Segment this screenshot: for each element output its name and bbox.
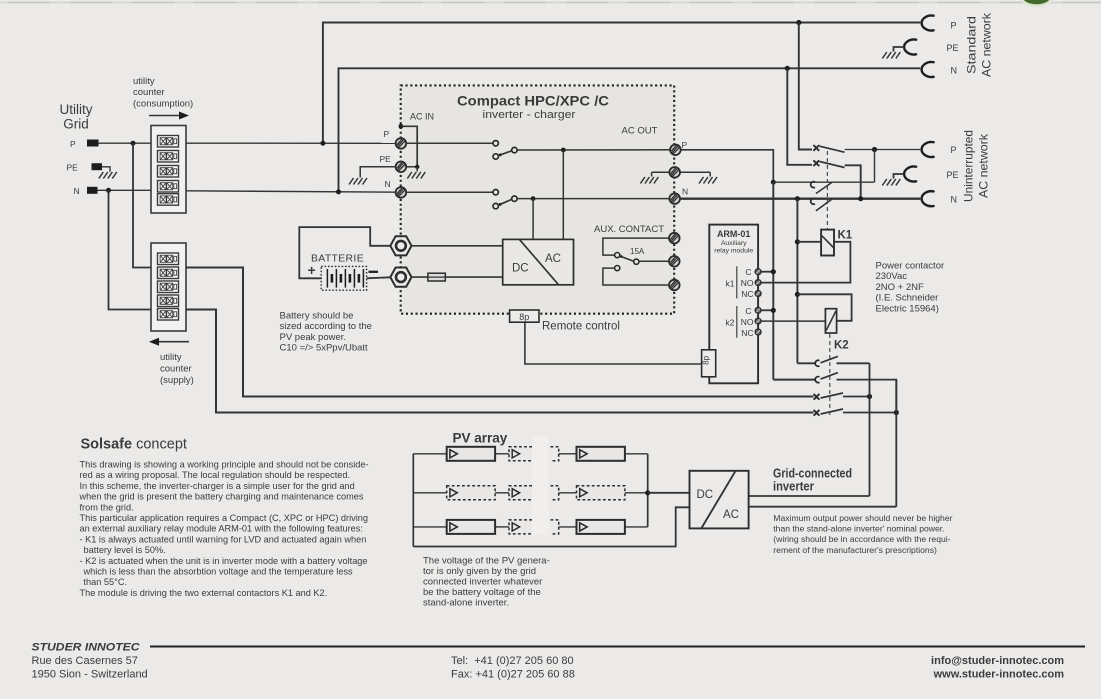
- note Solsafe paragraph: [79, 460, 369, 598]
- label 15A: [630, 247, 645, 256]
- svg-text:Remote control: Remote control: [542, 321, 620, 333]
- PV module PV2a (dashed): [447, 486, 495, 500]
- svg-text:than 55°C.: than 55°C.: [84, 577, 128, 587]
- wire N out line (thick): [680, 198, 920, 200]
- svg-text:C: C: [745, 306, 751, 316]
- wire standard P feed: [323, 23, 920, 144]
- label K1: [838, 230, 853, 242]
- wire k1 C to P bus: [761, 269, 776, 274]
- relay coil K2: [825, 309, 836, 333]
- contactor K2 pole 2 feed: [773, 379, 815, 381]
- PV module PV3c: [577, 520, 625, 534]
- wire K1 coil right pin to ARM NO1: [761, 242, 850, 283]
- node junction x896: [894, 410, 899, 415]
- svg-text:In this scheme, the inverter-c: In this scheme, the inverter-charger is …: [80, 481, 355, 491]
- svg-text:an external auxiliary relay mo: an external auxiliary relay module ARM-0…: [80, 524, 363, 534]
- svg-text:red as a wiring proposal. The: red as a wiring proposal. The local regu…: [80, 470, 351, 480]
- node k2 terminal group labels: [726, 306, 754, 338]
- terminal k2 NO: [755, 318, 761, 324]
- wire K2 pole1 out: [837, 362, 870, 364]
- wire PE to left ground: [360, 167, 395, 178]
- svg-text:STUDER INNOTEC: STUDER INNOTEC: [32, 642, 141, 654]
- svg-text:Rue des Casernes 57: Rue des Casernes 57: [32, 655, 138, 667]
- svg-text:15A: 15A: [630, 247, 645, 256]
- relay contact aux lower pole: [615, 266, 620, 271]
- svg-text:Auxiliary: Auxiliary: [721, 240, 747, 247]
- contactor K2 pole 1 feed: [797, 362, 815, 364]
- svg-text:N: N: [951, 66, 958, 76]
- svg-text:utility: utility: [160, 352, 182, 363]
- svg-text:AC: AC: [545, 253, 561, 265]
- ground (std PE): [882, 52, 900, 59]
- PV module 1b right end dashes: [551, 447, 559, 461]
- PV module 2b right end dashes: [551, 486, 559, 500]
- node junction std N: [785, 66, 790, 71]
- PV module PV3a: [447, 520, 495, 534]
- converter U2 grid-connected inverter: [690, 471, 749, 529]
- svg-text:PE: PE: [67, 163, 79, 173]
- fuse F1: [428, 273, 445, 281]
- terminal k1 NC: [755, 291, 761, 297]
- label N (AC IN): [385, 179, 391, 189]
- svg-text:Fax: +41 (0)27 205 60 88: Fax: +41 (0)27 205 60 88: [451, 669, 575, 681]
- PV module PV1b (dashed, faded): [509, 447, 532, 461]
- svg-text:PE: PE: [947, 170, 959, 180]
- label Power contactor note: [876, 261, 945, 315]
- wire P grid to counter1: [99, 142, 152, 144]
- node junction N line x860: [858, 196, 863, 201]
- label Solsafe concept: [81, 437, 187, 453]
- svg-text:www.studer-innotec.com: www.studer-innotec.com: [933, 669, 1065, 681]
- wire inverter output 1: [749, 495, 870, 497]
- footer company name: [32, 642, 141, 654]
- wire K2 coil left pin from k2 NO: [761, 320, 825, 322]
- svg-text:NC: NC: [741, 289, 753, 299]
- terminal k2 NC: [755, 329, 761, 335]
- svg-text:- K2 is actuated when the unit: - K2 is actuated when the unit is in inv…: [80, 556, 368, 566]
- module Compact HPC/XPC inverter-charger (dashed enclosure): [401, 85, 675, 313]
- connector socket unint P: [922, 142, 934, 157]
- wire std PE stub: [894, 47, 904, 52]
- svg-text:battery level is 50%.: battery level is 50%.: [84, 545, 166, 555]
- terminal P AC OUT: [670, 140, 687, 155]
- node junction PV bus: [645, 490, 650, 495]
- node junction std P: [796, 20, 801, 25]
- utility counter (supply) label: [160, 352, 194, 386]
- label P (AC IN): [384, 129, 390, 139]
- wire N drop to supply counter: [109, 190, 152, 309]
- terminal k2 C: [755, 307, 761, 313]
- svg-text:N: N: [951, 195, 958, 205]
- svg-text:PV array: PV array: [453, 431, 508, 446]
- contactor K1 pole 2 (x terminal + blade): [813, 160, 844, 167]
- svg-text:N: N: [385, 179, 391, 189]
- wire supply counter P side to long bus A: [186, 268, 814, 397]
- svg-text:k1: k1: [726, 279, 735, 289]
- wire AC IN PE bridge: [401, 126, 420, 169]
- terminal N AC IN: [396, 187, 407, 198]
- terminal k1 NO: [755, 280, 761, 286]
- svg-text:sized according to the: sized according to the: [280, 321, 372, 332]
- wire K1 pole1 out to uninterrupted P: [845, 149, 921, 151]
- node junction dot on P wire x322: [320, 141, 325, 146]
- wire S1b to AC OUT N: [517, 198, 669, 200]
- PV module 3b right end dashes: [551, 520, 559, 534]
- svg-text:DC: DC: [697, 489, 714, 501]
- svg-text:Grid: Grid: [63, 117, 89, 132]
- label N std: [951, 66, 958, 76]
- wire riser inverter out 2: [895, 380, 897, 507]
- wire aux NO to terminal 2: [639, 260, 669, 262]
- terminal PE AC IN: [396, 162, 407, 173]
- svg-text:Solsafe concept: Solsafe concept: [81, 437, 187, 453]
- svg-text:inverter: inverter: [773, 480, 814, 494]
- wire N grid to counter1: [98, 189, 152, 191]
- mechanical link K2: [829, 334, 831, 416]
- contactor K2 pole 3 (x terminal + blade): [814, 393, 843, 400]
- wire fuse to DC stage: [445, 276, 502, 278]
- terminal P AC IN: [396, 138, 407, 149]
- wire K2 pole3 out: [843, 396, 870, 398]
- node AC IN bridge dot: [399, 124, 404, 129]
- svg-text:counter: counter: [160, 364, 192, 375]
- PV module PV1c: [577, 447, 625, 461]
- svg-text:AC: AC: [723, 509, 739, 521]
- svg-text:from the grid.: from the grid.: [80, 502, 134, 512]
- svg-text:Battery should be: Battery should be: [280, 311, 354, 322]
- label +: [308, 262, 316, 278]
- svg-text:Grid-connected: Grid-connected: [773, 467, 852, 481]
- label PE (AC IN): [380, 154, 392, 164]
- svg-text:K1: K1: [838, 230, 853, 242]
- svg-text:AC network: AC network: [980, 12, 994, 77]
- label PV array: [453, 431, 508, 446]
- svg-text:This drawing is showing a work: This drawing is showing a working princi…: [80, 460, 369, 470]
- wire pole3 riser to unint P junction: [874, 150, 876, 183]
- wire riser inverter out 1: [869, 363, 871, 496]
- svg-text:C: C: [745, 267, 751, 277]
- terminal PE AC OUT: [669, 167, 680, 178]
- svg-text:DC: DC: [512, 263, 529, 275]
- svg-text:The voltage of the PV genera-: The voltage of the PV genera-: [423, 556, 550, 567]
- connector socket unint N: [922, 191, 934, 206]
- svg-text:PE: PE: [947, 43, 959, 53]
- node junction K2 coil N: [795, 292, 800, 297]
- battery BT1: [321, 266, 366, 290]
- footer phone: [451, 655, 575, 681]
- svg-text:NO: NO: [741, 278, 754, 288]
- label -: [369, 271, 379, 273]
- svg-text:NC: NC: [741, 328, 753, 338]
- wire battery - to hex stud: [367, 277, 391, 278]
- label PE std: [947, 43, 959, 53]
- svg-text:8p: 8p: [702, 355, 711, 364]
- contactor K1 pole 2 feed: [787, 68, 812, 165]
- svg-text:Electric 15964): Electric 15964): [876, 303, 939, 314]
- svg-text:8p: 8p: [519, 312, 529, 322]
- svg-text:which is less than the absorbt: which is less than the absorbtion voltag…: [83, 567, 354, 577]
- svg-text:relay module: relay module: [714, 248, 753, 255]
- PV module PV2b (dashed): [509, 486, 532, 500]
- svg-text:AC IN: AC IN: [410, 112, 434, 122]
- connector socket std PE: [904, 39, 916, 54]
- wire K2 coil right pin to N branch: [797, 294, 851, 321]
- svg-text:info@studer-innotec.com: info@studer-innotec.com: [931, 655, 1064, 667]
- svg-text:N: N: [682, 187, 688, 197]
- svg-text:Uninterrupted: Uninterrupted: [962, 130, 976, 202]
- wire PV row1 links: [413, 453, 647, 455]
- meter M2 utility counter supply: [151, 243, 186, 331]
- wire PV row3 links: [413, 526, 647, 528]
- wire remote control cable: [525, 322, 702, 364]
- ground (left of AC IN PE): [349, 178, 367, 185]
- label BATTERIE: [311, 253, 364, 265]
- wire P-out drop to K2: [772, 182, 774, 379]
- connector J2 8p ARM: [702, 350, 716, 377]
- label Remote control: [542, 321, 620, 333]
- connector socket std N: [922, 62, 934, 77]
- wire P counter1 to AC IN: [186, 142, 396, 144]
- wire k2 C to P bus: [761, 308, 776, 313]
- note PV voltage: [423, 556, 550, 609]
- wire PE out left ground: [652, 172, 670, 176]
- label AC IN: [410, 112, 434, 122]
- svg-text:230Vac: 230Vac: [876, 271, 908, 282]
- svg-text:(supply): (supply): [160, 375, 194, 386]
- wire S1a to AC OUT P: [517, 149, 670, 151]
- contactor K2 pole 1 (hook + blade): [815, 356, 838, 366]
- label Uninterrupted AC network: [962, 130, 991, 202]
- svg-text:stand-alone inverter.: stand-alone inverter.: [423, 598, 509, 609]
- battery note text: [280, 311, 372, 354]
- svg-text:This particular application re: This particular application requires a C…: [80, 513, 369, 523]
- terminal P (grid): [70, 139, 99, 149]
- svg-text:(consumption): (consumption): [133, 99, 193, 110]
- wire PV row2 links: [413, 492, 647, 494]
- svg-text:P: P: [384, 129, 390, 139]
- node junction P-out x773: [771, 180, 776, 185]
- wire inverter output 2: [749, 506, 897, 508]
- svg-text:Standard: Standard: [965, 16, 979, 74]
- wire battery + to DC stage: [412, 245, 503, 247]
- svg-text:AC network: AC network: [977, 133, 991, 198]
- terminal aux 3: [669, 280, 680, 291]
- svg-text:1950 Sion - Switzerland: 1950 Sion - Switzerland: [32, 669, 148, 681]
- label AUX. CONTACT: [594, 224, 664, 235]
- svg-text:- K1 is always actuated until: - K1 is always actuated until warning fo…: [80, 534, 367, 544]
- wire battery + loop: [299, 227, 390, 278]
- PV module PV1a: [447, 447, 495, 461]
- node junction dot on N wire x338: [336, 189, 341, 194]
- utility counter (consumption) label: [133, 76, 193, 110]
- wire PV - return to inverter: [413, 507, 689, 546]
- wire supply counter N side to long bus B: [186, 310, 814, 413]
- terminal N (grid): [74, 186, 98, 196]
- wire aux lower to terminal 3: [603, 268, 669, 285]
- top edge crop line: [0, 2, 1101, 4]
- svg-text:C10 =/> 5xPpv/Ubatt: C10 =/> 5xPpv/Ubatt: [280, 343, 369, 354]
- svg-text:P: P: [951, 145, 957, 155]
- arrow left (supply direction): [149, 338, 189, 346]
- node k1 terminal group labels: [726, 266, 754, 299]
- module ARM-01 box: [709, 225, 758, 384]
- terminal aux 2: [669, 256, 680, 267]
- node junction x869: [867, 394, 872, 399]
- svg-text:Tel: +41 (0)27 205 60 80: Tel: +41 (0)27 205 60 80: [451, 655, 574, 667]
- node junction K1 coil N: [795, 239, 800, 244]
- svg-text:(I.E. Schneider: (I.E. Schneider: [876, 293, 939, 304]
- wire K2 pole4 out: [843, 412, 896, 414]
- svg-text:AUX. CONTACT: AUX. CONTACT: [594, 224, 664, 235]
- svg-text:be the battery voltage of the: be the battery voltage of the: [423, 587, 541, 598]
- wire PV + to inverter: [648, 492, 690, 494]
- node junction N at x108.5: [106, 188, 111, 193]
- contactor K1 pole 4 (hook + blade below N line): [811, 198, 832, 211]
- svg-text:(wiring should be in accordanc: (wiring should be in accordance with the…: [773, 534, 950, 544]
- wire N counter1 to AC IN: [186, 191, 396, 192]
- wire N inside compact: [406, 191, 493, 193]
- connector socket unint PE: [904, 166, 916, 181]
- contactor K1 pole 1 feed: [799, 23, 812, 150]
- svg-text:counter: counter: [133, 87, 165, 98]
- label Grid-connected inverter: [773, 467, 852, 494]
- svg-text:utility: utility: [133, 76, 155, 87]
- svg-text:connected inverter whatever: connected inverter whatever: [423, 577, 542, 588]
- contactor K1 pole 3 wire: [773, 181, 874, 183]
- wire battery - to fuse: [412, 276, 428, 278]
- node junction P at x133: [131, 141, 136, 146]
- label Standard AC network: [965, 12, 994, 77]
- contactor K1 pole 1 (x terminal + blade): [813, 145, 844, 152]
- svg-text:PV peak power.: PV peak power.: [280, 332, 347, 343]
- connector socket std P: [922, 15, 934, 30]
- footer address: [32, 655, 148, 681]
- wire aux common: [603, 238, 669, 255]
- contactor K2 pole 4 (x terminal + blade): [814, 409, 843, 416]
- label P std: [951, 21, 957, 31]
- wire unint PE stub: [894, 174, 904, 179]
- node junction N-out x797: [795, 196, 800, 201]
- contactor K1 pole 3 (hook + blade below): [811, 182, 832, 194]
- svg-text:+: +: [308, 262, 316, 278]
- svg-text:k2: k2: [726, 317, 735, 327]
- label P unint: [951, 145, 957, 155]
- ground (AC OUT PE left): [640, 177, 658, 184]
- ground (unint PE): [882, 179, 900, 186]
- contactor K2 pole 2 (hook + blade): [815, 373, 838, 383]
- label AC OUT: [622, 126, 658, 137]
- svg-text:Utility: Utility: [60, 102, 93, 117]
- svg-text:Maximum output power should ne: Maximum output power should never be hig…: [773, 513, 952, 523]
- relay coil K1: [821, 230, 834, 256]
- wire standard N feed: [339, 68, 921, 192]
- label Compact HPC/XPC /C: [457, 93, 609, 122]
- label N unint: [951, 195, 958, 205]
- svg-text:N: N: [74, 186, 80, 196]
- wire AC OUT P to corner: [681, 150, 774, 182]
- svg-text:NO: NO: [741, 317, 754, 327]
- svg-text:P: P: [951, 21, 957, 31]
- green logo blob (cropped): [1021, 0, 1053, 7]
- relay contact S1a (transfer P): [493, 141, 517, 160]
- svg-text:2NO + 2NF: 2NO + 2NF: [876, 282, 925, 293]
- svg-text:The module is driving the two: The module is driving the two external c…: [80, 588, 328, 598]
- terminal PE (grid): [67, 163, 103, 173]
- label PE unint: [947, 170, 959, 180]
- note max output power: [773, 513, 952, 555]
- terminal aux 1: [669, 233, 680, 244]
- wire PE stub to ground: [102, 167, 110, 172]
- svg-text:P: P: [682, 140, 688, 150]
- svg-text:when the grid is present the b: when the grid is present the battery cha…: [79, 492, 364, 502]
- relay contact S1b (transfer N): [493, 190, 517, 209]
- wire PV right bus: [647, 454, 649, 527]
- terminal battery + (hex stud): [390, 236, 411, 255]
- relay contact aux changeover: [615, 253, 639, 265]
- wire PV left bus: [412, 454, 414, 547]
- wire PE out right ground: [680, 172, 710, 176]
- svg-text:rement of the manufacturer's p: rement of the manufacturer's prescriptio…: [773, 545, 937, 555]
- svg-text:Compact HPC/XPC /C: Compact HPC/XPC /C: [457, 93, 609, 109]
- ground (AC OUT PE right): [699, 177, 717, 184]
- node Utility Grid label: [60, 102, 93, 132]
- wire P drop to supply counter: [133, 143, 151, 267]
- arrow right (consumption direction): [149, 112, 189, 120]
- node junction to inverter AC (P): [561, 148, 566, 240]
- meter M1 utility counter consumption: [151, 126, 186, 214]
- wire K1 pole2 out to N line: [845, 165, 861, 198]
- ground (grid PE): [99, 172, 117, 179]
- PV module PV2c (dashed): [577, 486, 625, 500]
- label K2: [834, 340, 849, 352]
- label ARM-01: [714, 229, 753, 255]
- wire K1 coil left pin: [797, 241, 821, 243]
- svg-text:than the stand-alone inverter': than the stand-alone inverter' nominal p…: [773, 524, 944, 534]
- svg-text:P: P: [70, 139, 76, 149]
- svg-text:tor is only given by the grid: tor is only given by the grid: [423, 566, 536, 577]
- svg-text:BATTERIE: BATTERIE: [311, 253, 364, 265]
- erased band over middle modules: [532, 436, 549, 535]
- wire N branch drop to coils and K2: [796, 199, 798, 364]
- terminal k1 C: [755, 269, 761, 275]
- ground (AC IN PE): [407, 167, 425, 179]
- footer rule: [150, 646, 1085, 648]
- PV module PV3b (dashed, faded): [509, 520, 532, 534]
- terminal N AC OUT: [669, 187, 688, 204]
- wire P inside compact: [406, 142, 493, 144]
- wire K2 pole2 out: [837, 380, 897, 413]
- mechanical link K1: [826, 151, 828, 229]
- svg-text:inverter - charger: inverter - charger: [483, 109, 576, 121]
- svg-text:Power contactor: Power contactor: [876, 261, 945, 272]
- footer web: [931, 655, 1064, 681]
- svg-text:AC OUT: AC OUT: [622, 126, 658, 137]
- terminal battery - (hex stud): [390, 268, 411, 287]
- svg-text:PE: PE: [380, 154, 392, 164]
- node junction unint P: [872, 147, 877, 152]
- node junction to inverter AC (N): [531, 196, 536, 239]
- connector J1 8p remote: [510, 310, 539, 322]
- svg-text:ARM-01: ARM-01: [717, 229, 751, 239]
- converter U1 DC/AC (inverter-charger power stage): [503, 239, 574, 284]
- svg-text:K2: K2: [834, 340, 849, 352]
